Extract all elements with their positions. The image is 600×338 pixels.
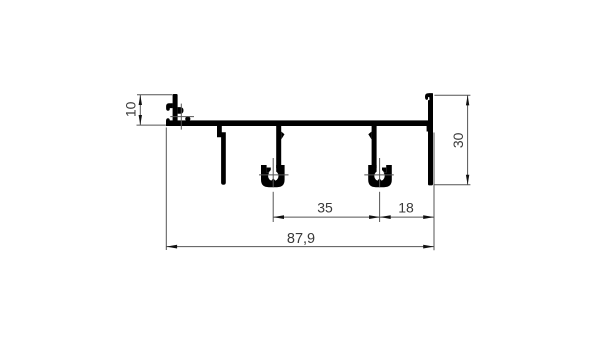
dim 30 bottom extension line bbox=[434, 184, 470, 186]
dim 35-18 line bbox=[273, 216, 434, 218]
right bump on stem bbox=[178, 107, 184, 114]
dim 10 arrow down bbox=[139, 115, 142, 125]
dim 10 line bbox=[139, 95, 141, 125]
screw boss 1 bbox=[259, 126, 289, 222]
dim 87,9 line bbox=[166, 246, 434, 248]
svg-text:87,9: 87,9 bbox=[287, 231, 315, 247]
right extension line bbox=[433, 133, 435, 251]
dim 30 arrow up bbox=[466, 95, 469, 105]
dim 30 top extension line bbox=[434, 94, 470, 96]
boss cavity slot bbox=[267, 163, 277, 173]
dim 18 arrow left bbox=[380, 215, 391, 219]
boss barb bbox=[281, 132, 284, 140]
svg-text:18: 18 bbox=[398, 200, 414, 216]
dim 35 arrow left bbox=[273, 215, 284, 219]
left upper arm bbox=[166, 103, 173, 111]
left cross centerline vertical bbox=[180, 104, 182, 130]
boss centerline vertical bbox=[272, 158, 274, 187]
right hook notch bbox=[428, 97, 429, 100]
right top hook bbox=[425, 93, 433, 100]
left stem bbox=[173, 94, 178, 126]
dim 18 arrow right bbox=[423, 215, 434, 219]
dim 30 line bbox=[467, 95, 469, 184]
left extension line bbox=[165, 128, 167, 251]
dim 10 bottom extension line bbox=[137, 124, 166, 126]
main bar bbox=[166, 120, 433, 126]
dim 87,9 arrow left bbox=[166, 245, 177, 249]
left cross centerline horizontal bbox=[170, 116, 194, 118]
boss stem bbox=[276, 126, 281, 172]
dim 35 arrow right bbox=[369, 215, 380, 219]
right vertical bar bbox=[428, 93, 433, 185]
left lower nub bbox=[166, 118, 170, 126]
boss tooth bbox=[267, 168, 271, 173]
boss cavity circle bbox=[268, 171, 278, 181]
dim 10 top extension line bbox=[137, 94, 172, 96]
boss bottom ridge bbox=[271, 178, 276, 181]
svg-text:35: 35 bbox=[317, 200, 333, 216]
boss cup bbox=[261, 165, 285, 187]
dim 30 arrow down bbox=[466, 175, 469, 185]
dim 10 arrow up bbox=[139, 95, 142, 105]
boss centerline horizontal bbox=[259, 174, 289, 176]
fin with step bbox=[217, 126, 226, 185]
screw boss 2 (mirrored) bbox=[364, 126, 394, 222]
right step below bar bbox=[427, 126, 429, 132]
svg-text:30: 30 bbox=[450, 132, 466, 148]
dim 87,9 arrow right bbox=[423, 245, 434, 249]
small dot bbox=[185, 116, 190, 121]
boss centerline vertical lower bbox=[272, 192, 274, 222]
svg-text:10: 10 bbox=[122, 101, 138, 117]
